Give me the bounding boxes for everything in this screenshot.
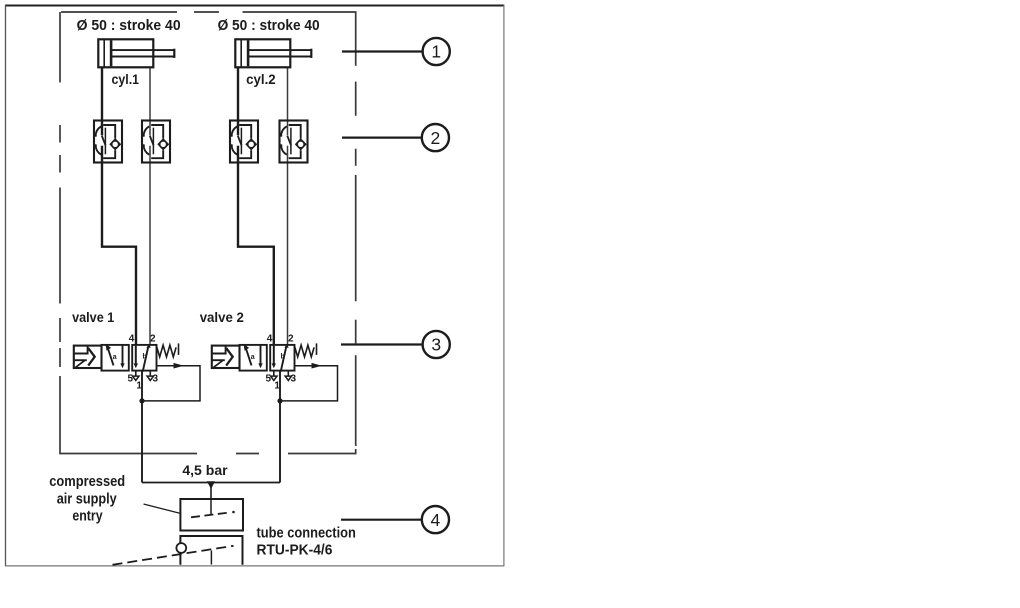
valve 2 pilot feedback loop: [280, 366, 338, 401]
tube connection inner pipe: [210, 551, 212, 565]
wire cyl.1 cap side to valve 1 port 4: [102, 67, 136, 345]
callout circle 4: [422, 506, 449, 533]
svg-text:4,5 bar: 4,5 bar: [182, 463, 228, 478]
wire valve 2 port 1 down to supply bus: [279, 371, 281, 483]
svg-text:tube connection: tube connection: [257, 526, 356, 542]
svg-text:cyl.2: cyl.2: [246, 72, 276, 87]
dashed enclosure box bottom edge: [60, 453, 356, 455]
flow control valve on cyl.1 cap line: [94, 121, 122, 163]
svg-text:valve 2: valve 2: [200, 310, 244, 325]
supply shut-off unit box: [180, 499, 243, 531]
supply unit lever (dashed): [191, 512, 231, 517]
valve 2 (5/2 way): [212, 334, 317, 392]
cylinder cyl.1: [98, 39, 174, 67]
leader line to callout 2: [342, 137, 422, 139]
svg-text:entry: entry: [72, 509, 102, 525]
wire cyl.1 rod side to valve 1 port 2: [149, 67, 151, 345]
svg-text:air supply: air supply: [57, 492, 117, 508]
wire cyl.2 cap side to valve 2 port 4: [238, 67, 274, 345]
leader line to callout 3: [341, 343, 423, 345]
dashed enclosure box right edge: [355, 12, 357, 454]
tube connection circle: [176, 543, 186, 553]
border frame: [5, 5, 504, 566]
cylinder cyl.2: [235, 39, 311, 67]
tube (dashed diagonal): [113, 546, 234, 565]
supply tap arrow: [207, 481, 215, 489]
svg-text:3: 3: [431, 335, 441, 355]
leader line to callout 1: [342, 50, 423, 52]
valve 2 pilot flow arrow: [312, 363, 323, 369]
leader from compressed air label: [144, 504, 180, 513]
valve 1 pilot feedback loop: [142, 366, 200, 401]
svg-text:RTU-PK-4/6: RTU-PK-4/6: [257, 542, 333, 558]
supply unit lever end dot: [232, 511, 235, 514]
svg-text:valve 1: valve 1: [72, 310, 115, 325]
dashed enclosure box top edge: [61, 11, 357, 13]
svg-text:Ø 50 : stroke 40: Ø 50 : stroke 40: [77, 18, 181, 34]
valve 1 (5/2 way): [74, 334, 179, 392]
svg-text:cyl.1: cyl.1: [112, 72, 140, 87]
callout circle 3: [423, 331, 450, 358]
wire valve 1 port 1 down to supply bus: [141, 371, 143, 483]
flow control valve on cyl.2 cap line: [230, 121, 258, 163]
leader line to callout 4: [341, 519, 422, 521]
svg-text:1: 1: [431, 42, 441, 62]
supply bus wire: [142, 482, 280, 484]
dashed enclosure box left edge: [59, 12, 61, 454]
junction valve 1: [139, 398, 144, 403]
svg-text:2: 2: [431, 128, 441, 148]
flow control valve on cyl.1 rod line: [142, 121, 170, 163]
callout circle 1: [423, 38, 450, 65]
flow control valve on cyl.2 rod line: [280, 121, 308, 163]
wire bus to supply unit: [210, 483, 212, 500]
callout circle 2: [422, 124, 449, 151]
svg-text:compressed: compressed: [49, 474, 125, 490]
valve 1 pilot flow arrow: [174, 363, 185, 369]
tube connection box: [180, 536, 242, 565]
supply unit inner pipe: [210, 499, 212, 514]
svg-text:4: 4: [431, 510, 441, 530]
wire cyl.2 rod side to valve 2 port 2: [287, 67, 289, 345]
junction valve 2: [277, 398, 282, 403]
svg-text:Ø 50 : stroke 40: Ø 50 : stroke 40: [218, 18, 320, 34]
